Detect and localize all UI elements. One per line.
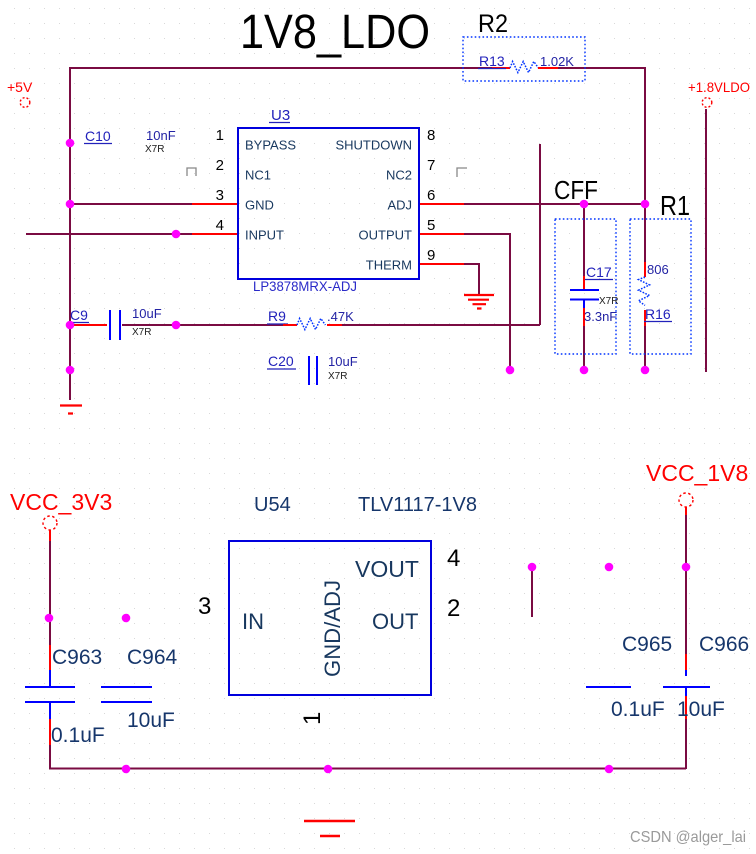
junction C965 bottom rail xyxy=(605,765,614,774)
wire GND net xyxy=(70,203,192,205)
svg-text:U54: U54 xyxy=(254,494,291,516)
wire C9 rail xyxy=(122,324,540,326)
C17 lead red upper xyxy=(583,276,585,289)
no-connect mark pin7 xyxy=(457,168,467,177)
junction C965 top xyxy=(605,563,614,572)
svg-text:OUTPUT: OUTPUT xyxy=(359,228,413,243)
svg-text:VCC_1V8: VCC_1V8 xyxy=(646,460,748,486)
svg-text:SHUTDOWN: SHUTDOWN xyxy=(335,138,412,153)
pin lead ADJ pin6 xyxy=(418,203,464,205)
svg-text:THERM: THERM xyxy=(366,258,412,273)
ground bottom xyxy=(304,821,355,836)
resistor R16 dashed box xyxy=(630,219,691,354)
C9 lead red left xyxy=(72,324,107,326)
svg-text:9: 9 xyxy=(427,247,435,264)
capacitor C963 plates xyxy=(25,687,75,702)
svg-text:1.02K: 1.02K xyxy=(540,54,574,69)
svg-text:4: 4 xyxy=(447,545,460,572)
junction VCC_3V3/IN row xyxy=(45,614,54,623)
svg-text:0.1uF: 0.1uF xyxy=(611,698,665,721)
svg-text:C965: C965 xyxy=(622,633,672,656)
svg-text:R2: R2 xyxy=(478,10,508,38)
svg-text:C964: C964 xyxy=(127,646,178,669)
wire C17 branch xyxy=(583,204,585,370)
resistor R13 zigzag xyxy=(510,62,538,73)
svg-text:+1.8VLDO: +1.8VLDO xyxy=(688,79,750,95)
svg-text:GND/ADJ: GND/ADJ xyxy=(320,580,345,677)
junction C17 drop end xyxy=(580,366,589,375)
svg-text:BYPASS: BYPASS xyxy=(245,138,296,153)
pin lead OUTPUT pin5 xyxy=(418,233,464,235)
svg-text:R9: R9 xyxy=(268,308,286,324)
svg-text:806: 806 xyxy=(647,262,669,277)
wire stub pin4 area xyxy=(531,567,533,617)
svg-text:3.3nF: 3.3nF xyxy=(584,309,617,324)
svg-text:NC1: NC1 xyxy=(245,168,271,183)
regulator U54 chip box xyxy=(229,541,431,695)
R16 lead red lower xyxy=(644,310,646,326)
VCC_1V8 red stub xyxy=(685,507,687,515)
wire left riser +5V rail xyxy=(69,67,71,400)
svg-text:U3: U3 xyxy=(271,107,290,124)
ground left rail xyxy=(60,406,82,414)
svg-text:C966: C966 xyxy=(699,633,749,656)
svg-text:6: 6 xyxy=(427,187,435,204)
svg-text:C10: C10 xyxy=(85,128,111,144)
pin lead THERM pin9 xyxy=(418,263,464,265)
svg-text:X7R: X7R xyxy=(599,296,618,307)
wire OUTPUT net xyxy=(464,233,510,370)
junction R16 drop end xyxy=(641,366,650,375)
svg-text:VCC_3V3: VCC_3V3 xyxy=(10,489,112,515)
wire R16 branch xyxy=(644,204,646,370)
svg-text:C9: C9 xyxy=(70,307,88,323)
svg-text:C17: C17 xyxy=(586,264,612,280)
svg-text:10nF: 10nF xyxy=(146,128,176,143)
C9 plates xyxy=(110,310,120,340)
junction C9 right lead xyxy=(172,321,181,330)
ground THERM xyxy=(464,295,494,309)
svg-text:3: 3 xyxy=(216,187,224,204)
svg-text:R1: R1 xyxy=(660,190,690,221)
junction left riser lower xyxy=(66,366,75,375)
resistor R13 dashed box xyxy=(463,37,585,81)
R16 lead red upper xyxy=(644,262,646,277)
svg-text:ADJ: ADJ xyxy=(387,198,412,213)
svg-text:3: 3 xyxy=(198,593,211,620)
svg-text:X7R: X7R xyxy=(132,327,151,338)
wire VCC_1V8 drop xyxy=(685,515,687,769)
resistor R13 lead left xyxy=(492,67,510,69)
wire ADJ net xyxy=(464,203,646,205)
C17 plates xyxy=(570,290,599,300)
svg-text:CSDN @alger_lai: CSDN @alger_lai xyxy=(630,829,746,846)
svg-text:10uF: 10uF xyxy=(127,709,175,732)
svg-text:2: 2 xyxy=(216,157,224,174)
capacitor C966 leads xyxy=(685,654,687,670)
junction C964 top xyxy=(122,614,131,623)
svg-text:IN: IN xyxy=(242,609,264,634)
svg-text:CFF: CFF xyxy=(554,175,598,205)
svg-text:C20: C20 xyxy=(268,353,294,369)
svg-text:1V8_LDO: 1V8_LDO xyxy=(240,6,430,59)
wire THERM net xyxy=(464,264,480,295)
svg-text:X7R: X7R xyxy=(328,371,347,382)
junction ADJ/C17 xyxy=(580,200,589,209)
wire +1.8VLDO drop xyxy=(705,109,707,372)
junction OUTPUT drop end xyxy=(506,366,515,375)
pin lead INPUT pin4 xyxy=(192,233,238,235)
svg-text:10uF: 10uF xyxy=(328,354,358,369)
wire INPUT net xyxy=(26,233,192,235)
R9 zigzag xyxy=(297,319,325,330)
junction ADJ/R16 xyxy=(641,200,650,209)
op-amp U3 chip box xyxy=(238,128,419,279)
capacitor C964 plates xyxy=(101,687,152,702)
VCC_3V3 red stub xyxy=(49,530,51,541)
capacitor C966 plate xyxy=(663,686,710,688)
wire top rail left segment xyxy=(70,67,492,69)
svg-text:C963: C963 xyxy=(52,646,102,669)
svg-text:TLV1117-1V8: TLV1117-1V8 xyxy=(358,494,477,516)
svg-text:10uF: 10uF xyxy=(677,698,725,721)
junction INPUT net xyxy=(172,230,181,239)
svg-text:4: 4 xyxy=(216,217,224,234)
svg-text:.47K: .47K xyxy=(327,309,354,324)
R16 zigzag xyxy=(639,277,650,305)
svg-text:2: 2 xyxy=(447,595,460,622)
wire VCC_3V3 drop maroon xyxy=(49,541,51,769)
svg-text:INPUT: INPUT xyxy=(245,228,284,243)
junction C9 rail left xyxy=(66,321,75,330)
wire right drop from R2 to ADJ xyxy=(644,67,646,204)
svg-text:10uF: 10uF xyxy=(132,306,162,321)
junction C10/BYPASS rail xyxy=(66,139,75,148)
capacitor C965 plate xyxy=(586,686,631,688)
svg-text:8: 8 xyxy=(427,127,435,144)
wire top rail right segment xyxy=(558,67,646,69)
junction VOUT stub top xyxy=(528,563,537,572)
pin lead GND pin3 xyxy=(192,203,238,205)
svg-text:1: 1 xyxy=(299,712,326,725)
junction C964 bottom rail xyxy=(122,765,131,774)
svg-text:OUT: OUT xyxy=(372,609,418,634)
svg-text:1: 1 xyxy=(216,127,224,144)
svg-text:7: 7 xyxy=(427,157,435,174)
svg-text:R16: R16 xyxy=(645,306,671,322)
svg-text:GND: GND xyxy=(245,198,274,213)
svg-text:X7R: X7R xyxy=(145,144,164,155)
svg-text:+5V: +5V xyxy=(7,79,33,95)
wire dangling vertical xyxy=(539,144,541,325)
svg-text:VOUT: VOUT xyxy=(355,556,419,582)
R9 lead right xyxy=(327,324,342,326)
C17 lead lower xyxy=(583,300,585,308)
svg-text:0.1uF: 0.1uF xyxy=(51,724,105,747)
junction GND rail xyxy=(66,200,75,209)
svg-text:NC2: NC2 xyxy=(386,168,412,183)
capacitor C963 leads xyxy=(49,645,51,670)
junction ground rail xyxy=(324,765,333,774)
no-connect mark pin2 xyxy=(187,168,196,176)
R9 lead left xyxy=(283,324,297,326)
svg-text:5: 5 xyxy=(427,217,435,234)
capacitor C17 dashed box xyxy=(555,219,616,354)
wire bottom rail xyxy=(49,768,686,770)
resistor R13 lead right xyxy=(538,67,558,69)
svg-text:LP3878MRX-ADJ: LP3878MRX-ADJ xyxy=(253,278,357,294)
svg-text:R13: R13 xyxy=(479,53,505,69)
junction VCC_1V8 drop xyxy=(682,563,691,572)
C20 plates xyxy=(309,356,317,385)
